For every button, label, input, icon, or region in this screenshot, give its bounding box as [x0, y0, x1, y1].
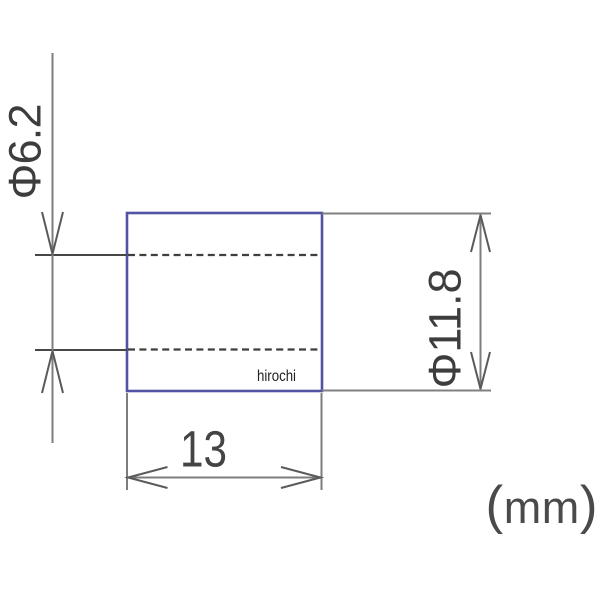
extension line upper-left: [35, 254, 127, 256]
arrowhead up at lower bore line: [42, 351, 63, 393]
svg-text:hirochi: hirochi: [257, 368, 296, 385]
hidden bore line lower (dashed): [128, 348, 321, 350]
extension line bottom-right vertical: [321, 393, 323, 490]
extension line bottom-left vertical: [126, 393, 128, 490]
hidden bore line upper (dashed): [128, 254, 321, 256]
dimension line Phi11.8 (vertical): [480, 214, 482, 390]
svg-text:Φ6.2: Φ6.2: [0, 104, 51, 200]
arrowhead down at bottom extension: [471, 352, 490, 389]
arrowhead up at top extension: [471, 215, 490, 252]
arrowhead left: [128, 467, 168, 488]
part outline (cylinder side view): [127, 213, 322, 391]
dimension line 13 (horizontal): [127, 477, 322, 479]
svg-text:13: 13: [180, 421, 227, 478]
arrowhead right: [281, 467, 321, 488]
svg-text:Φ11.8: Φ11.8: [420, 269, 471, 389]
extension line bottom-right: [322, 390, 491, 392]
extension line lower-left: [35, 349, 127, 351]
dimension line Phi6.2 (vertical): [52, 53, 54, 443]
extension line top-right: [322, 213, 491, 215]
arrowhead down at upper bore line: [42, 212, 63, 254]
svg-text:(mm): (mm): [486, 476, 598, 535]
